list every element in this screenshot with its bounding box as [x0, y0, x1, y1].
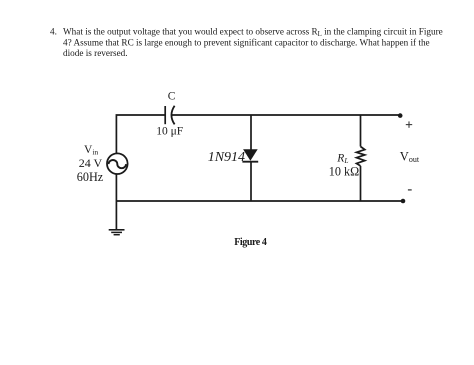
- svg-text:24 V: 24 V: [79, 156, 103, 170]
- svg-text:What is the output voltage tha: What is the output voltage that you woul…: [63, 27, 443, 39]
- svg-text:1N914: 1N914: [208, 150, 245, 165]
- svg-text:Figure 4: Figure 4: [234, 237, 267, 248]
- svg-text:4? Assume that RC is large eno: 4? Assume that RC is large enough to pre…: [63, 38, 430, 48]
- svg-text:4.: 4.: [50, 27, 57, 37]
- svg-text:C: C: [168, 91, 176, 103]
- svg-text:10 kΩ: 10 kΩ: [329, 165, 359, 179]
- svg-text:10 μF: 10 μF: [156, 125, 183, 137]
- svg-text:diode is reversed.: diode is reversed.: [63, 48, 128, 58]
- svg-text:60Hz: 60Hz: [77, 170, 104, 184]
